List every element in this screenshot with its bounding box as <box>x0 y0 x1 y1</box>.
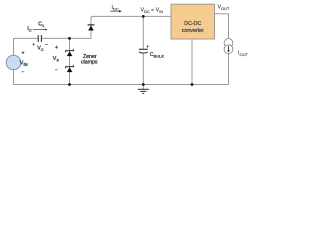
svg-text:+: + <box>22 50 25 56</box>
svg-text:VIN: VIN <box>20 61 28 68</box>
svg-text:IC: IC <box>27 26 31 33</box>
current source IOUT <box>224 39 233 54</box>
node junction zener bottom <box>68 83 71 86</box>
zener diode Z1 <box>66 49 74 56</box>
label Zener clamps <box>81 54 98 65</box>
diode D1 <box>88 25 95 31</box>
DC-DC converter U1 <box>171 4 215 39</box>
label VIN <box>20 50 28 75</box>
wire diode column lower segment <box>90 31 92 39</box>
svg-text:CBULK: CBULK <box>150 52 165 59</box>
wire vout horizontal <box>215 13 229 15</box>
svg-text:VDC ≈ VIN: VDC ≈ VIN <box>141 7 164 14</box>
voltage source VIN <box>6 55 21 70</box>
wire C1 right plate to diode column <box>41 37 91 39</box>
svg-text:C1: C1 <box>38 21 45 28</box>
capacitor C1 <box>38 35 41 42</box>
wire diode cathode up and top rail to box <box>91 16 171 25</box>
node junction box bottom <box>191 83 194 86</box>
svg-text:VC: VC <box>37 45 44 52</box>
wire box bottom <box>191 39 193 85</box>
label VX <box>53 45 60 73</box>
svg-text:converter: converter <box>182 28 204 34</box>
current arrow IDC <box>110 10 122 13</box>
wire right vertical lower <box>228 54 230 85</box>
svg-text:+: + <box>55 45 58 51</box>
svg-text:−: − <box>55 68 58 74</box>
svg-text:−: − <box>45 43 48 48</box>
svg-text:IDC: IDC <box>112 5 119 12</box>
svg-text:VX: VX <box>53 56 60 63</box>
svg-text:DC-DC: DC-DC <box>184 21 201 27</box>
label VC <box>32 43 48 52</box>
current arrow IC <box>33 28 47 30</box>
wire cbulk lower <box>142 54 144 89</box>
svg-text:clamps: clamps <box>81 59 98 65</box>
wire right vertical upper <box>228 14 230 39</box>
node A junction top of zeners <box>68 37 71 40</box>
zener diode Z2 <box>66 65 74 72</box>
wire left vertical + top-left rail to C1 <box>14 38 39 55</box>
svg-text:IOUT: IOUT <box>238 50 248 57</box>
svg-text:−: − <box>22 69 25 75</box>
node junction ground <box>142 83 145 86</box>
wire left vertical below source and bottom rail <box>14 70 229 85</box>
ground <box>138 89 149 93</box>
svg-text:+: + <box>32 43 35 48</box>
capacitor CBULK <box>139 44 149 53</box>
node junction VDC <box>142 15 145 18</box>
svg-text:+: + <box>146 44 149 49</box>
svg-text:VOUT: VOUT <box>218 5 231 12</box>
wire zener branch <box>69 38 71 84</box>
wire cbulk upper <box>142 16 144 49</box>
